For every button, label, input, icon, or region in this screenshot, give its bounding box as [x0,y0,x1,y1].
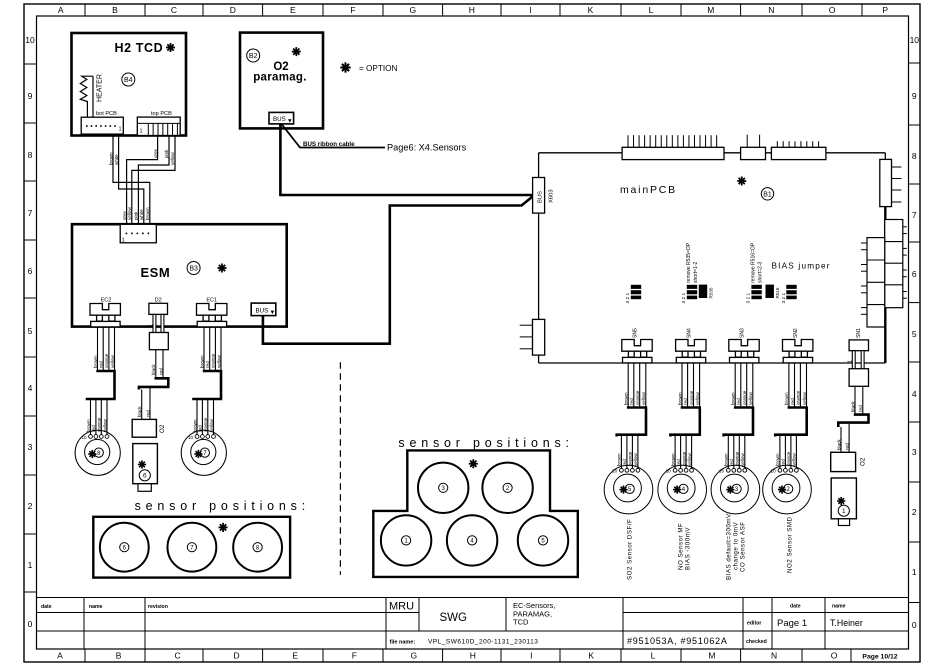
wires to sensor 4 pins [675,435,692,469]
position number 2 [503,483,512,492]
box sensor position 6 [133,444,158,484]
svg-text:M: M [707,5,714,15]
position number 8 [253,543,262,552]
svg-text:red: red [158,368,163,375]
svg-text:SN4: SN4 [686,328,692,338]
svg-text:EC1: EC1 [206,298,217,304]
svg-text:SN5: SN5 [633,328,639,338]
wires to sensor 3 pins [728,435,745,469]
asterisk sensor 8 [88,450,96,458]
svg-text:1: 1 [848,360,854,363]
sensor position 7 (EC1) [181,430,226,475]
title block project EC-Sensors PARAMAG TCD [513,601,556,627]
svg-text:NO Sensor MF: NO Sensor MF [678,523,685,570]
svg-text:SN3: SN3 [740,328,746,338]
SN1 cable jog [838,415,869,427]
svg-text:brown: brown [784,392,789,405]
svg-text:white: white [114,154,119,165]
position number 7 [187,543,196,552]
svg-text:1: 1 [140,129,143,135]
sensor 8 wire labels [86,417,108,432]
svg-text:10: 10 [81,435,87,440]
sensor position 3 (SN3) [711,465,760,514]
wire labels SN3 [731,390,754,405]
svg-text:BUS: BUS [256,308,269,315]
label B3 [187,262,200,275]
svg-text:brown: brown [108,152,113,165]
svg-text:yellow: yellow [641,392,646,405]
svg-text:TCD: TCD [513,618,529,627]
wire white TCD to ESM [119,136,144,225]
svg-text:B: B [116,651,122,661]
TCD wire color labels top [108,148,175,165]
svg-text:X603: X603 [549,189,555,203]
svg-text:yellow: yellow [802,392,807,405]
svg-text:1: 1 [148,324,154,327]
note remove R516 short 2-3 [751,242,764,283]
svg-text:date: date [790,604,801,610]
label B2 [247,49,260,62]
sensor number 6 [139,470,150,481]
cable jog SN2 [775,408,808,437]
connector D2 top [149,303,168,314]
svg-text:H2 TCD: H2 TCD [115,41,164,55]
O2 wire labels [137,406,150,417]
sensor position 2 (SN2) [763,465,812,514]
svg-text:1: 1 [912,567,917,577]
connector bot PCB [81,117,123,134]
wires to O2 sensor [841,424,849,452]
svg-text:SN1: SN1 [856,328,862,338]
EC2 wire labels [93,353,115,368]
svg-text:5: 5 [912,329,917,339]
sensor position 5 (SN5) [604,465,653,514]
svg-text:BUS ribbon cable: BUS ribbon cable [303,141,355,148]
svg-text:0: 0 [28,619,33,629]
svg-text:O: O [829,5,836,15]
svg-text:C: C [175,651,181,661]
svg-text:D: D [230,5,236,15]
left sensor positions box [93,517,290,578]
svg-text:R516: R516 [775,287,780,298]
EC1 cable jog [192,371,222,399]
label B4 [122,73,135,86]
wire pink TCD to ESM [138,136,169,225]
connector EC2 [90,304,120,327]
svg-text:black: black [151,364,156,375]
right column pins [903,227,907,298]
svg-text:name: name [832,604,846,610]
D2 wire labels [151,364,163,375]
svg-text:6: 6 [912,269,917,279]
svg-text:5: 5 [28,326,33,336]
svg-text:K: K [588,651,594,661]
frame top column dividers [85,4,862,16]
svg-text:yellow: yellow [102,419,107,432]
svg-text:G: G [410,651,417,661]
resistor heater zigzag [80,76,93,117]
svg-text:2: 2 [912,507,917,517]
svg-text:brown: brown [724,453,729,466]
box ESM B3 [72,224,287,326]
connector BUS paramag [269,112,294,124]
svg-text:yellow: yellow [748,392,753,405]
asterisk left positions [219,523,228,532]
svg-text:MRU: MRU [389,601,414,613]
box O2 sensor connector [831,452,856,471]
svg-text:CO Sensor ASF: CO Sensor ASF [740,521,747,572]
connector SN4 [676,340,706,363]
wire brown TCD to ESM [113,136,150,225]
wire labels SN2 [784,390,807,405]
O2 sensor wire labels [836,439,849,450]
connector D2 legs [153,314,164,332]
svg-text:K: K [588,5,594,15]
svg-text:6: 6 [143,473,147,480]
asterisk option mark mainPCB [737,176,746,185]
sensor 6 bottom tab [138,484,151,492]
asterisk sensor 3 [726,486,734,494]
svg-text:file name:: file name: [390,640,416,646]
svg-text:P: P [882,5,888,15]
svg-text:black: black [137,406,142,417]
connector top 8pin [771,141,826,159]
svg-text:O2: O2 [159,424,166,433]
svg-text:red: red [858,405,863,412]
sensor number 1 [838,505,849,516]
svg-text:mainPCB: mainPCB [620,184,677,196]
svg-text:brown: brown [86,419,91,432]
svg-text:M: M [708,651,715,661]
svg-text:pink: pink [134,211,139,220]
frame bottom column letters A-O [57,651,838,661]
svg-text:red: red [790,398,795,405]
svg-text:0: 0 [912,620,917,630]
asterisk option mark ESM [217,263,226,272]
sensor 4 wire labels [670,451,692,466]
position number 3 [439,483,448,492]
svg-text:red: red [844,443,849,450]
connector D2 bottom [149,333,168,350]
asterisk sensor 4 [673,486,681,494]
wires to sensor 7 pins [197,399,214,435]
svg-text:brown: brown [731,392,736,405]
sensor 5 wire labels [617,451,639,466]
frame left row dividers [24,64,37,592]
sensor 4 type label [678,523,692,570]
svg-text:name: name [89,604,103,610]
svg-text:C: C [171,5,177,15]
wires to sensor 2 pins [780,435,797,469]
svg-text:SWG: SWG [440,612,468,624]
jumper block SN5 pins 3 2 1 [625,285,641,304]
svg-text:I: I [529,5,531,15]
wires to O2 box [142,388,150,420]
title block grid lines [37,598,909,650]
svg-text:H: H [470,651,476,661]
svg-text:NO2 Sensor SMD: NO2 Sensor SMD [787,516,794,573]
svg-text:orange: orange [635,390,640,405]
svg-text:7: 7 [28,208,33,218]
svg-text:#951053A, #951062A: #951053A, #951062A [627,636,728,646]
svg-text:B3: B3 [189,266,198,273]
SN1 wire labels [850,401,863,412]
svg-text:BIAS default=300mV: BIAS default=300mV [726,513,733,580]
wire BUS paramag to mainPCB X603 [280,124,532,195]
position circle 4 [447,515,497,565]
svg-text:black: black [836,439,841,450]
position circle 6 [100,523,149,572]
svg-text:O2: O2 [860,457,867,466]
sensor number 2 [784,484,793,493]
EC1 wire labels [199,353,221,368]
sensor number 3 [732,484,741,493]
svg-text:A: A [58,5,64,15]
svg-text:VPL_SW610D_200-1131_230113: VPL_SW610D_200-1131_230113 [428,639,538,646]
position number 4 [468,536,477,545]
svg-text:top PCB: top PCB [151,111,172,117]
svg-text:L: L [649,5,654,15]
asterisk option mark H2 TCD [166,43,175,52]
connector SN1 legs [852,351,864,369]
svg-text:R535: R535 [709,287,714,298]
sensor position 8 (EC2) [75,430,120,475]
svg-text:revision: revision [148,604,168,610]
sensor number 8 [94,448,103,457]
svg-text:E: E [292,651,298,661]
svg-text:white: white [139,209,144,220]
svg-text:yellow: yellow [740,453,745,466]
svg-text:black: black [850,401,855,412]
sensor 3 wire labels [724,451,746,466]
sensor number 5 [625,484,634,493]
svg-text:orange: orange [689,390,694,405]
wires EC2 to sensor 8 [98,327,115,371]
svg-text:bot PCB: bot PCB [96,111,117,117]
svg-text:yellow: yellow [209,419,214,432]
svg-text:7: 7 [912,210,917,220]
sensor number 4 [679,484,688,493]
connector mainPCB left 3pin [520,319,545,355]
box O2 paramag B2 [240,33,323,129]
sensor 3 type label [726,513,747,580]
svg-text:SN2: SN2 [793,328,799,338]
position circle 2 [482,463,532,513]
svg-text:brown: brown [670,453,675,466]
connector X601 top long [622,135,724,159]
svg-text:yellow: yellow [687,453,692,466]
connector top small 2pin [741,135,766,160]
resistor R535 [699,285,714,299]
heater right lead [92,76,94,117]
wires SN4 down [682,363,700,408]
svg-text:yellow: yellow [127,207,132,220]
sensor 2 type label [787,516,794,573]
svg-text:3: 3 [912,447,917,457]
wire grey TCD to ESM [127,136,158,225]
wire labels SN4 [677,390,700,405]
wire yellow TCD to ESM [132,136,175,225]
svg-text:orange: orange [796,390,801,405]
svg-text:orange: orange [211,353,216,368]
connector SN5 [622,340,652,363]
svg-text:remove R535=OP: remove R535=OP [686,242,692,283]
svg-text:yellow: yellow [792,453,797,466]
svg-text:Page 1: Page 1 [777,618,807,629]
asterisk sensor 1 [837,497,845,505]
resistor R516 [766,285,781,299]
asterisk sensor 7 [194,450,202,458]
svg-text:brown: brown [617,453,622,466]
svg-text:orange: orange [786,451,791,466]
position circle 5 [518,515,568,565]
connector ESM top input [120,224,156,243]
asterisk legend [340,62,350,72]
svg-text:3: 3 [28,442,33,452]
svg-text:B1: B1 [763,191,772,198]
svg-text:red: red [99,361,104,368]
position number 5 [538,536,547,545]
connector edge right column [885,220,903,308]
svg-text:yellow: yellow [170,152,175,165]
position number 1 [402,536,411,545]
svg-text:D: D [234,651,240,661]
svg-text:D2: D2 [155,298,162,304]
wires SN1 black red [855,386,863,414]
svg-text:BIAS jumper: BIAS jumper [772,262,831,271]
svg-text:orange: orange [104,353,109,368]
connector top PCB [137,117,180,135]
svg-text:BIAS -300mV: BIAS -300mV [685,527,692,570]
svg-text:yellow: yellow [633,453,638,466]
svg-text:checked: checked [746,639,767,645]
leader BUS ribbon cable [282,124,386,148]
svg-text:B2: B2 [249,53,258,60]
svg-text:3 2 1: 3 2 1 [625,292,631,303]
EC2 cable jog [86,371,116,399]
connector SN1 bottom [849,369,868,387]
svg-text:orange: orange [628,451,633,466]
svg-text:red: red [145,410,150,417]
svg-text:short=2-3: short=2-3 [758,262,764,283]
svg-text:orange: orange [681,451,686,466]
jumper block SN2 pins 3 2 1 [781,285,797,304]
svg-text:= OPTION: = OPTION [359,64,398,73]
svg-text:remove R516=OP: remove R516=OP [751,242,757,283]
svg-text:1: 1 [842,508,846,515]
svg-text:1: 1 [28,560,33,570]
frame right row dividers [909,63,921,603]
svg-text:2: 2 [28,501,33,511]
svg-text:red: red [629,398,634,405]
svg-text:F: F [350,5,355,15]
position circle 3 [418,463,468,513]
svg-text:brown: brown [775,453,780,466]
svg-text:3 2 1: 3 2 1 [746,292,752,303]
sensor position 4 (SN4) [658,465,707,514]
svg-text:sensor positions:: sensor positions: [398,436,573,450]
svg-text:HEATER: HEATER [97,74,104,102]
asterisk sensor 6 [138,460,146,468]
svg-text:SO2 Sensor DSF/F: SO2 Sensor DSF/F [626,519,633,580]
svg-text:6: 6 [28,266,33,276]
box H2 TCD B4 [72,33,187,136]
sensor 2 wire labels [775,451,797,466]
svg-text:O: O [831,651,838,661]
svg-text:8: 8 [28,150,33,160]
left column pins [861,243,867,314]
connector SN2 [783,340,813,363]
svg-text:9: 9 [28,91,33,101]
svg-text:ESM: ESM [141,265,171,280]
wire labels SN5 [624,390,647,405]
wires D2 black red [156,350,163,379]
svg-text:B: B [112,5,118,15]
svg-text:E: E [290,5,296,15]
frame bottom column dividers [85,649,851,662]
wires SN3 down [735,363,753,408]
svg-text:1: 1 [119,127,122,133]
mainPCB outline [539,153,886,363]
svg-text:10: 10 [25,35,35,45]
svg-text:F: F [352,651,357,661]
sensor number 7 [200,448,209,457]
svg-text:H: H [469,5,475,15]
wires SN2 down [789,363,807,408]
svg-text:N: N [771,651,777,661]
svg-text:BUS: BUS [538,191,544,203]
frame right row numbers 10-0 [910,35,920,630]
svg-text:red: red [205,361,210,368]
svg-text:red: red [736,398,741,405]
svg-text:L: L [651,651,656,661]
svg-text:brown: brown [199,355,204,368]
middle sensor positions outline [373,450,578,577]
svg-text:Page 10/12: Page 10/12 [862,654,897,661]
svg-text:pink: pink [164,149,169,158]
svg-text:4: 4 [28,383,33,393]
note remove R535 short 1-2 [686,242,699,283]
svg-text:4: 4 [912,389,917,399]
box sensor position 1 [831,478,856,519]
svg-text:brown: brown [93,355,98,368]
cable jog SN3 [724,408,755,437]
svg-text:red: red [683,398,688,405]
connector SN1 top [849,340,868,351]
cable jog SN4 [670,408,701,437]
connector BUS X603 [533,178,545,214]
svg-text:brown: brown [677,392,682,405]
svg-text:8: 8 [912,151,917,161]
asterisk option mark paramag [292,47,301,56]
svg-text:3 2 1: 3 2 1 [681,292,687,303]
asterisk sensor 2 [778,486,786,494]
svg-text:yellow: yellow [110,355,115,368]
svg-text:short=1-2: short=1-2 [693,262,699,283]
sensor 5 type label [626,519,633,580]
svg-text:editor: editor [747,621,761,627]
frame left row numbers 10-0 [25,35,35,629]
dashed separator line [339,362,341,575]
sensor 7 wire labels [192,417,214,432]
svg-text:yellow: yellow [216,355,221,368]
frame top column letters A-P [58,5,889,15]
svg-text:A: A [57,651,63,661]
position circle 7 [168,523,217,572]
connector mainPCB right 4pin [880,159,902,206]
svg-text:N: N [768,5,774,15]
svg-text:brown: brown [192,419,197,432]
